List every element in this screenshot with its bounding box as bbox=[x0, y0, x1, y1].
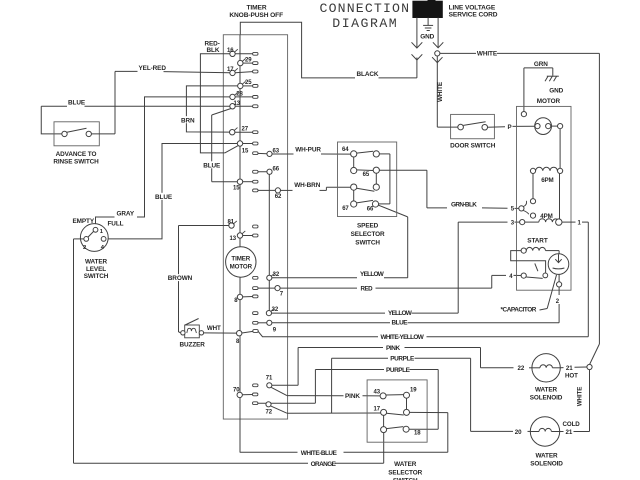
timer terminal 27 bbox=[230, 126, 259, 135]
svg-text:PURPLE: PURPLE bbox=[386, 367, 411, 374]
svg-text:FULL: FULL bbox=[108, 221, 124, 228]
svg-text:2: 2 bbox=[83, 245, 86, 251]
motor terminal 2 with wire down bbox=[556, 274, 562, 322]
water solenoid COLD (20-21) bbox=[515, 417, 590, 468]
timer box bbox=[223, 35, 287, 419]
speed selector right lower contact bbox=[373, 173, 379, 190]
label BLUE on riser to water level switch bbox=[155, 193, 173, 201]
svg-text:BLK: BLK bbox=[207, 47, 220, 54]
svg-text:WATER: WATER bbox=[535, 387, 558, 394]
svg-text:YELLOW: YELLOW bbox=[360, 271, 385, 278]
svg-text:22: 22 bbox=[518, 365, 525, 372]
water selector contact 19 bbox=[386, 388, 417, 399]
motor label bbox=[537, 98, 561, 105]
svg-text:28: 28 bbox=[236, 91, 243, 97]
svg-text:WH-BRN: WH-BRN bbox=[294, 182, 321, 189]
svg-text:BUZZER: BUZZER bbox=[180, 342, 206, 349]
speed selector contact 66 with wire to YELLOW bbox=[367, 201, 379, 213]
svg-text:BLUE: BLUE bbox=[203, 162, 221, 169]
svg-text:BRN: BRN bbox=[181, 117, 195, 124]
svg-text:WHITE: WHITE bbox=[437, 81, 444, 102]
wire RED-BLK from terminal 16 to blade of 15 bbox=[200, 40, 230, 153]
svg-text:ORANGE: ORANGE bbox=[311, 461, 337, 468]
svg-text:21: 21 bbox=[566, 429, 573, 436]
svg-text:29: 29 bbox=[245, 57, 252, 63]
svg-text:YEL-RED: YEL-RED bbox=[139, 65, 167, 72]
svg-text:15: 15 bbox=[233, 186, 240, 192]
motor box bbox=[517, 106, 572, 290]
svg-text:BLUE: BLUE bbox=[68, 100, 86, 107]
svg-text:SOLENOID: SOLENOID bbox=[530, 395, 563, 402]
speed selector contact 67 bbox=[342, 190, 373, 212]
svg-text:WHITE-YELLOW: WHITE-YELLOW bbox=[381, 334, 425, 341]
svg-text:20: 20 bbox=[515, 429, 522, 436]
wire BLUE advance-to-rinse to terminal 13 bbox=[41, 100, 230, 134]
blade 71 with wire PINK to water selector 43 bbox=[271, 387, 380, 400]
svg-text:LEVEL: LEVEL bbox=[86, 266, 106, 273]
svg-text:17: 17 bbox=[227, 67, 234, 73]
wire GRAY water level switch to terminal 28 bbox=[96, 97, 230, 227]
motor 6PM winding bbox=[530, 129, 562, 184]
timer contact 32 lower with wire YELLOW to motor terminal 3 bbox=[253, 222, 520, 317]
svg-text:19: 19 bbox=[410, 388, 417, 394]
cord neutral lead with chevrons and junction node bbox=[432, 18, 443, 128]
timer contact 32 upper with wire YELLOW to speed selector 66 bbox=[253, 205, 408, 280]
water selector switch box bbox=[367, 380, 427, 442]
svg-text:63: 63 bbox=[273, 149, 280, 155]
svg-text:TIMER: TIMER bbox=[231, 255, 250, 262]
timer contact 72 stub with wire PURPLE to water selector 18 bbox=[253, 367, 439, 429]
timer terminal 72 with blade and wire PURPLE to water solenoid 20 bbox=[266, 356, 531, 432]
motor protector P bbox=[535, 118, 563, 135]
wire WHITE down to solenoid COLD bbox=[576, 370, 589, 432]
svg-text:RED: RED bbox=[361, 285, 374, 292]
speed selector switch label bbox=[351, 222, 385, 246]
wire from water level switch FULL contact to terminal 15 bbox=[106, 144, 237, 239]
svg-text:WHITE: WHITE bbox=[477, 51, 498, 58]
svg-text:17: 17 bbox=[374, 406, 381, 412]
label WHITE on vertical neutral wire bbox=[437, 81, 444, 102]
svg-text:67: 67 bbox=[342, 206, 349, 212]
svg-text:32: 32 bbox=[272, 307, 279, 313]
title CONNECTION DIAGRAM bbox=[320, 1, 411, 31]
speed selector right top contact with bracket to 66 bbox=[373, 151, 390, 204]
buzzer bbox=[180, 319, 237, 349]
svg-text:16: 16 bbox=[227, 48, 234, 54]
svg-text:DIAGRAM: DIAGRAM bbox=[332, 16, 398, 31]
svg-text:66: 66 bbox=[367, 207, 374, 213]
service cord plug (line voltage service cord) bbox=[413, 0, 498, 18]
svg-text:SWITCH: SWITCH bbox=[355, 240, 380, 247]
svg-text:BLUE: BLUE bbox=[392, 320, 409, 327]
svg-text:PINK: PINK bbox=[386, 345, 400, 352]
timer terminal 15 upper with blade bbox=[225, 141, 258, 155]
svg-text:DOOR SWITCH: DOOR SWITCH bbox=[450, 142, 496, 149]
svg-text:YELLOW: YELLOW bbox=[388, 310, 413, 317]
motor ground terminal bbox=[521, 112, 526, 117]
svg-text:CONNECTION: CONNECTION bbox=[320, 1, 411, 16]
svg-text:70: 70 bbox=[233, 387, 240, 393]
svg-text:GRN-BLK: GRN-BLK bbox=[451, 201, 477, 208]
svg-text:KNOB-PUSH OFF: KNOB-PUSH OFF bbox=[229, 12, 283, 19]
svg-text:32: 32 bbox=[273, 272, 280, 278]
timer terminal 8 upper bbox=[234, 294, 258, 304]
speed selector left lower contact bbox=[351, 184, 375, 191]
svg-text:81: 81 bbox=[228, 220, 235, 226]
timer contact 71 with wire PINK to water solenoid 22 bbox=[253, 345, 532, 388]
wire WHITE-YELLOW terminal 8 to motor terminal 1 bbox=[258, 220, 588, 341]
chassis ground symbol GND bbox=[545, 76, 564, 94]
cord hot lead with disconnect chevrons (BLACK) bbox=[412, 18, 423, 78]
motor 4PM winding and terminal 3 bbox=[511, 174, 576, 227]
svg-text:25: 25 bbox=[245, 80, 252, 86]
wire BLACK from timer knob line to cord bbox=[240, 22, 417, 78]
svg-text:43: 43 bbox=[374, 389, 381, 395]
svg-text:P: P bbox=[508, 124, 512, 131]
svg-text:6PM: 6PM bbox=[541, 177, 553, 184]
svg-text:COLD: COLD bbox=[563, 421, 581, 428]
water selector contact 43 bbox=[374, 389, 387, 399]
svg-text:13: 13 bbox=[230, 236, 237, 242]
door switch bbox=[437, 114, 535, 149]
svg-text:13: 13 bbox=[234, 101, 241, 107]
svg-text:BLACK: BLACK bbox=[357, 71, 379, 78]
svg-text:WHITE: WHITE bbox=[576, 387, 583, 406]
svg-text:WATER: WATER bbox=[394, 461, 417, 468]
svg-text:START: START bbox=[527, 238, 548, 245]
timer terminal 13 with blade to riser bbox=[212, 101, 258, 182]
svg-text:SWITCH: SWITCH bbox=[84, 273, 109, 280]
svg-text:66: 66 bbox=[273, 166, 280, 172]
svg-text:18: 18 bbox=[414, 431, 421, 437]
svg-text:PINK: PINK bbox=[345, 393, 360, 400]
label BLUE on riser 13-15 bbox=[203, 161, 221, 169]
water level switch bbox=[73, 218, 124, 280]
junction node on WHITE wire bbox=[587, 364, 592, 369]
svg-text:SOLENOID: SOLENOID bbox=[530, 461, 563, 468]
svg-text:*CAPACITOR: *CAPACITOR bbox=[501, 307, 537, 314]
motor start winding START bbox=[511, 238, 559, 278]
timer label TIMER KNOB-PUSH OFF bbox=[229, 4, 283, 19]
svg-text:MOTOR: MOTOR bbox=[537, 98, 561, 105]
wire ORANGE water level switch to water selector bbox=[74, 239, 384, 468]
timer motor bbox=[226, 247, 256, 277]
svg-text:71: 71 bbox=[266, 375, 273, 381]
motor speed contacts at terminal 5 bbox=[511, 174, 553, 221]
svg-text:27: 27 bbox=[242, 126, 249, 132]
timer contact 7 with wire RED to motor start terminal 4 bbox=[253, 275, 521, 297]
timer terminal 70 bbox=[233, 387, 258, 397]
advance to rinse switch bbox=[53, 71, 115, 165]
svg-text:TIMER: TIMER bbox=[246, 4, 266, 11]
svg-text:15: 15 bbox=[242, 148, 249, 154]
svg-text:GRN: GRN bbox=[534, 61, 548, 68]
capacitor label and pointer bbox=[501, 275, 557, 314]
water solenoid HOT (22-21) bbox=[518, 354, 588, 402]
svg-text:LINE VOLTAGE: LINE VOLTAGE bbox=[449, 4, 496, 11]
svg-text:GND: GND bbox=[420, 34, 434, 41]
speed selector left middle contact bbox=[351, 157, 374, 174]
timer terminal 17 bbox=[227, 67, 258, 76]
timer center shaft line bbox=[239, 35, 241, 453]
svg-text:WATER: WATER bbox=[85, 259, 108, 266]
timer contact 62 with wire WH-BRN to speed selector bbox=[253, 182, 351, 200]
svg-text:WHITE-BLUE: WHITE-BLUE bbox=[301, 450, 338, 457]
wire GRN motor ground bbox=[524, 61, 553, 111]
wire BRN terminal 25 to terminal 27 bbox=[180, 86, 238, 132]
svg-text:EMPTY: EMPTY bbox=[73, 218, 95, 225]
wire YEL-RED to terminal 17 bbox=[115, 65, 230, 73]
svg-text:GRAY: GRAY bbox=[117, 210, 135, 217]
svg-text:HOT: HOT bbox=[565, 373, 578, 380]
speed selector contact 65 with wire GRN-BLK to motor 5 bbox=[363, 167, 519, 208]
timer terminal 81 bbox=[228, 220, 259, 229]
timer terminal 15 lower bbox=[212, 179, 258, 192]
svg-text:ADVANCE TO: ADVANCE TO bbox=[56, 151, 97, 158]
svg-text:WH-PUR: WH-PUR bbox=[295, 147, 321, 154]
svg-text:WHT: WHT bbox=[207, 325, 221, 332]
timer contact 66 with wire down to 32 bbox=[253, 166, 280, 310]
svg-text:GND: GND bbox=[549, 88, 563, 95]
timer terminal 16 bbox=[227, 48, 258, 57]
timer terminal 29 bbox=[238, 57, 258, 65]
svg-text:21: 21 bbox=[566, 365, 573, 372]
svg-text:BLUE: BLUE bbox=[155, 194, 173, 201]
svg-text:SPEED: SPEED bbox=[357, 222, 379, 229]
svg-text:MOTOR: MOTOR bbox=[230, 263, 253, 270]
timer terminal 13 lower bbox=[230, 231, 259, 242]
wire WHITE-BLUE terminal 70 to water selector bbox=[240, 413, 448, 457]
svg-text:SELECTOR: SELECTOR bbox=[388, 470, 422, 477]
water selector switch label bbox=[388, 461, 422, 480]
motor start switch (centrifugal) bbox=[509, 254, 569, 280]
svg-text:65: 65 bbox=[363, 172, 370, 178]
wire WHITE from cord node to right side bbox=[440, 51, 599, 365]
water selector contact 18 pair bbox=[381, 415, 422, 436]
svg-text:BROWN: BROWN bbox=[168, 275, 193, 282]
svg-text:WATER: WATER bbox=[535, 453, 558, 460]
timer terminal 28 bbox=[230, 91, 258, 99]
speed selector switch box bbox=[338, 142, 397, 217]
timer terminal 25 bbox=[238, 80, 258, 88]
svg-text:SERVICE CORD: SERVICE CORD bbox=[449, 11, 498, 18]
timer contact 63 with wire WH-PUR to speed selector 64 bbox=[253, 147, 351, 157]
svg-text:SELECTOR: SELECTOR bbox=[351, 231, 385, 238]
speed selector contact 64 bbox=[342, 147, 373, 157]
cord ground lead and ground symbol GND bbox=[420, 18, 434, 41]
svg-text:PURPLE: PURPLE bbox=[390, 356, 415, 363]
timer terminal 8 lower with stub bbox=[236, 330, 258, 345]
svg-text:72: 72 bbox=[266, 409, 273, 415]
wire BROWN terminal 81 to buzzer bbox=[168, 226, 229, 333]
water selector contact 17 pair bbox=[374, 398, 448, 415]
svg-text:64: 64 bbox=[342, 147, 349, 153]
timer contact 9 with wire BLUE to motor terminal 2 bbox=[253, 320, 559, 334]
svg-text:RINSE SWITCH: RINSE SWITCH bbox=[53, 159, 99, 166]
svg-text:62: 62 bbox=[275, 194, 282, 200]
